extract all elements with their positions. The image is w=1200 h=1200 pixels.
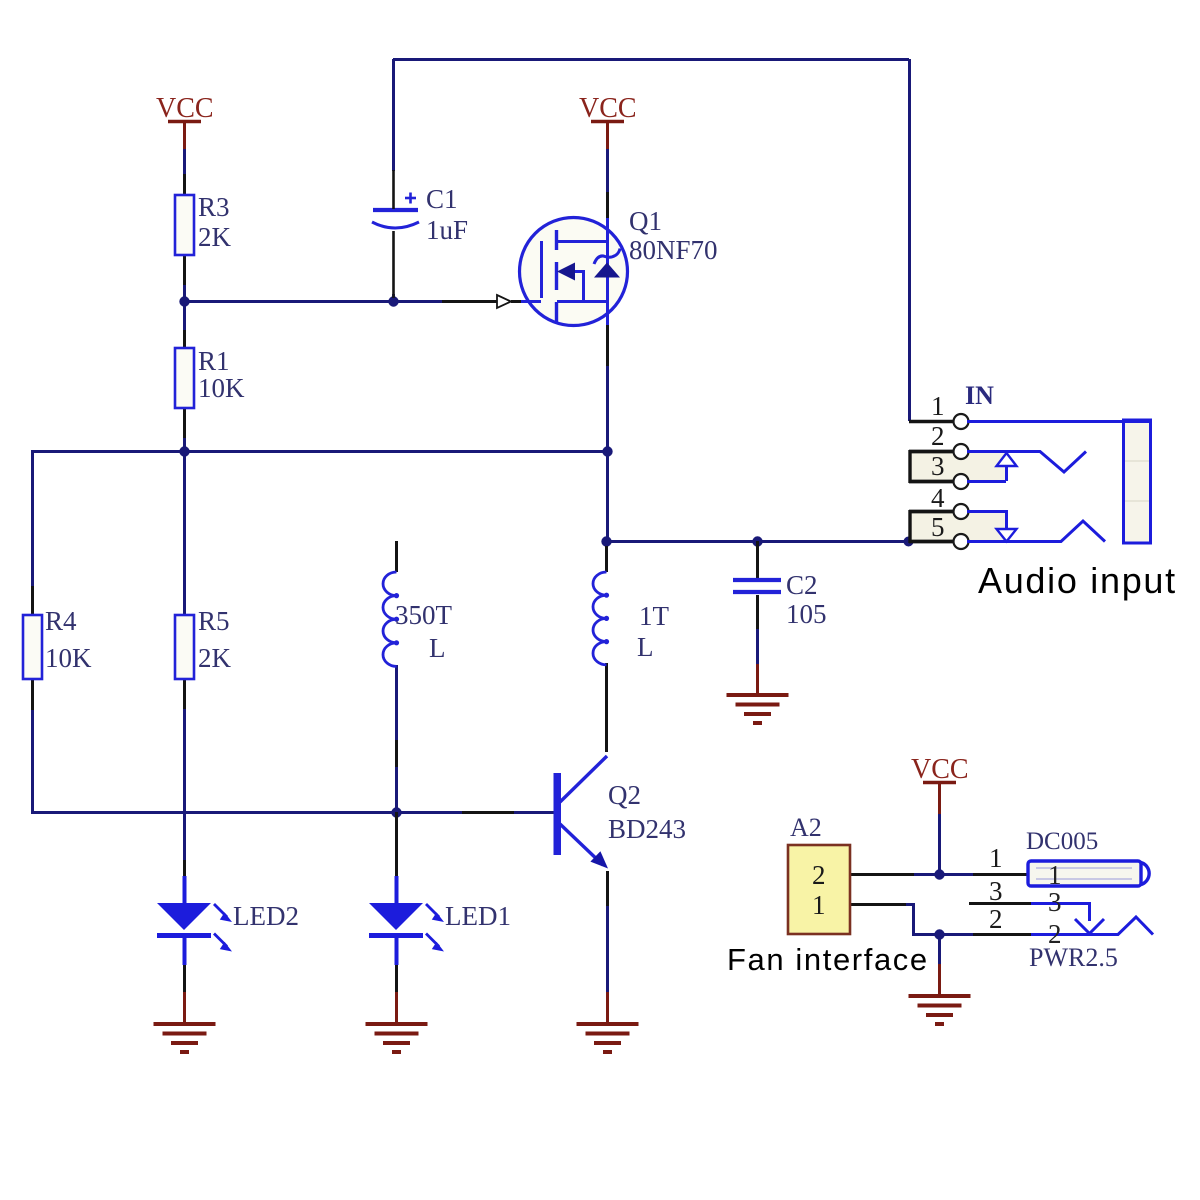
svg-text:Fan interface: Fan interface <box>727 942 929 977</box>
svg-text:VCC: VCC <box>156 93 214 124</box>
svg-text:R5: R5 <box>198 606 230 636</box>
svg-text:2: 2 <box>931 421 945 451</box>
svg-text:2: 2 <box>812 860 826 890</box>
svg-text:2: 2 <box>989 904 1003 934</box>
svg-text:LED1: LED1 <box>445 901 511 931</box>
svg-text:2K: 2K <box>198 222 232 252</box>
svg-text:VCC: VCC <box>579 93 637 124</box>
svg-text:5: 5 <box>931 512 945 542</box>
svg-text:L: L <box>429 633 446 663</box>
svg-text:L: L <box>637 632 654 662</box>
svg-text:1uF: 1uF <box>426 215 468 245</box>
svg-text:3: 3 <box>1048 887 1062 917</box>
svg-text:1: 1 <box>989 843 1003 873</box>
svg-text:Q2: Q2 <box>608 780 641 810</box>
svg-text:LED2: LED2 <box>233 901 299 931</box>
svg-text:3: 3 <box>989 876 1003 906</box>
svg-text:1: 1 <box>931 391 945 421</box>
svg-text:2K: 2K <box>198 643 232 673</box>
svg-text:IN: IN <box>965 381 994 410</box>
svg-text:350T: 350T <box>395 600 453 630</box>
svg-text:10K: 10K <box>198 373 245 403</box>
svg-text:Q1: Q1 <box>629 206 662 236</box>
svg-text:BD243: BD243 <box>608 814 686 844</box>
svg-text:VCC: VCC <box>911 754 969 785</box>
svg-text:PWR2.5: PWR2.5 <box>1029 943 1118 972</box>
svg-text:C2: C2 <box>786 570 818 600</box>
svg-text:DC005: DC005 <box>1026 828 1098 855</box>
svg-text:1: 1 <box>1048 860 1062 890</box>
svg-text:4: 4 <box>931 483 945 513</box>
svg-text:80NF70: 80NF70 <box>629 235 718 265</box>
svg-text:C1: C1 <box>426 184 458 214</box>
svg-text:Audio input: Audio input <box>978 560 1177 601</box>
svg-text:1T: 1T <box>639 601 670 631</box>
svg-text:105: 105 <box>786 599 827 629</box>
svg-text:10K: 10K <box>45 643 92 673</box>
svg-text:R3: R3 <box>198 192 230 222</box>
svg-text:R1: R1 <box>198 346 230 376</box>
svg-text:A2: A2 <box>790 813 822 842</box>
svg-text:3: 3 <box>931 451 945 481</box>
svg-text:R4: R4 <box>45 606 77 636</box>
svg-text:1: 1 <box>812 890 826 920</box>
